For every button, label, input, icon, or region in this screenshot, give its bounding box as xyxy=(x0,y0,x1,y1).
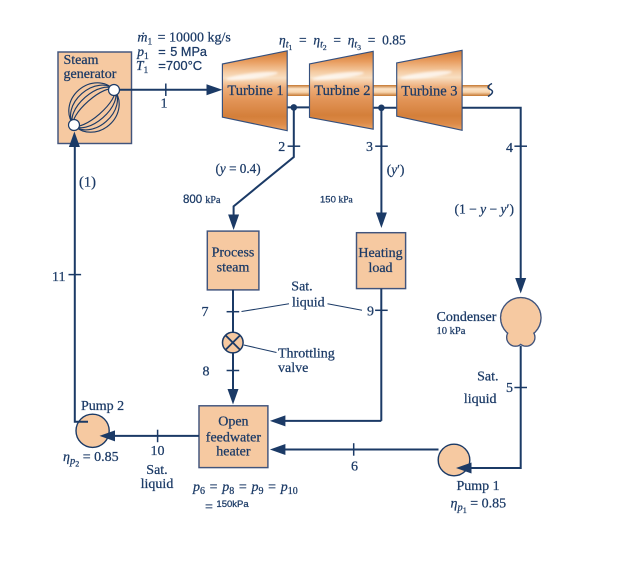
node 6 xyxy=(351,443,358,474)
svg-text:800 kPa: 800 kPa xyxy=(183,194,221,206)
svg-text:valve: valve xyxy=(278,361,308,376)
wire: T2 exhaust to T3 inlet xyxy=(373,107,397,109)
wire: T3 exhaust to condenser xyxy=(462,108,521,280)
svg-text:5: 5 xyxy=(506,381,513,396)
label sat liquid (5) xyxy=(464,370,499,408)
svg-text:steam: steam xyxy=(217,261,250,276)
steam generator xyxy=(58,52,132,144)
svg-text:liquid: liquid xyxy=(292,296,325,311)
node 5 xyxy=(506,381,527,396)
svg-text:ηp1 = 0.85: ηp1 = 0.85 xyxy=(451,497,507,516)
svg-text:6: 6 xyxy=(351,460,358,475)
process steam box xyxy=(207,231,259,290)
svg-text:10 kPa: 10 kPa xyxy=(437,326,466,337)
svg-text:heater: heater xyxy=(216,445,251,460)
svg-text:Sat.: Sat. xyxy=(477,370,498,385)
shaft T2-T3 xyxy=(371,85,399,96)
svg-text:10: 10 xyxy=(151,444,165,459)
svg-text:2: 2 xyxy=(278,140,285,155)
junction: extraction point 2 xyxy=(291,104,298,111)
shaft T1-T2 xyxy=(285,85,312,96)
svg-text:load: load xyxy=(368,261,392,276)
svg-text:(y′): (y′) xyxy=(387,162,405,177)
svg-text:7: 7 xyxy=(202,305,209,320)
svg-text:Condenser: Condenser xyxy=(437,310,497,325)
node 10 xyxy=(151,430,165,459)
wire: steam generator to turbine 1 xyxy=(119,84,222,95)
svg-text:ηt1 = ηt2 = ηt3 = 0.85: ηt1 = ηt2 = ηt3 = 0.85 xyxy=(279,33,406,53)
wire: heating load to feedwater heater xyxy=(283,420,381,422)
svg-text:liquid: liquid xyxy=(141,477,174,492)
svg-text:liquid: liquid xyxy=(464,392,497,407)
junction: extraction point 3 xyxy=(378,105,385,112)
pump P1 xyxy=(438,444,506,515)
wire: feedwater heater to pump 2 xyxy=(113,435,199,437)
svg-text:(y = 0.4): (y = 0.4) xyxy=(216,161,261,176)
svg-text:(1 − y − y′): (1 − y − y′) xyxy=(455,202,514,217)
open feedwater heater xyxy=(199,406,268,468)
label: m1 p1 T1 values xyxy=(136,31,231,77)
svg-text:generator: generator xyxy=(64,67,117,82)
svg-text:150 kPa: 150 kPa xyxy=(320,195,354,206)
label p6=p8=p9=p10 xyxy=(192,480,298,515)
turbine T1 xyxy=(222,51,287,131)
coil end circles xyxy=(109,85,120,96)
svg-text:Pump 1: Pump 1 xyxy=(457,479,500,494)
node 4 xyxy=(506,141,527,156)
svg-text:Turbine 3: Turbine 3 xyxy=(401,84,457,100)
svg-text:4: 4 xyxy=(506,141,513,156)
svg-text:Heating: Heating xyxy=(358,246,402,261)
svg-text:11: 11 xyxy=(52,270,65,285)
svg-text:Sat.: Sat. xyxy=(146,463,167,478)
condenser xyxy=(501,298,541,347)
svg-text:Pump 2: Pump 2 xyxy=(81,399,124,414)
svg-text:Turbine 2: Turbine 2 xyxy=(314,83,370,99)
svg-text:Steam: Steam xyxy=(64,53,99,68)
node 1 xyxy=(161,84,168,112)
throttling valve xyxy=(223,332,244,353)
node 11 xyxy=(52,270,81,285)
wire: heating load down xyxy=(380,289,382,421)
svg-text:feedwater: feedwater xyxy=(206,430,262,445)
svg-text:Process: Process xyxy=(212,246,255,261)
wire: extraction 2 to process steam xyxy=(234,107,294,216)
wire: extraction 3 to heating load xyxy=(380,108,382,216)
pump P2 xyxy=(63,399,124,469)
wire: T1 exhaust to T2 inlet xyxy=(287,106,309,108)
wire: condenser to pump 1 xyxy=(470,346,521,468)
svg-text:= 150kPa: = 150kPa xyxy=(205,499,249,515)
svg-text:3: 3 xyxy=(366,140,373,155)
svg-text:p6 = p8 = p9 = p10: p6 = p8 = p9 = p10 xyxy=(192,480,298,497)
svg-text:Throttling: Throttling xyxy=(278,347,335,362)
svg-text:ηp2 = 0.85: ηp2 = 0.85 xyxy=(63,450,119,469)
node 2 xyxy=(278,140,300,155)
shaft tail after T3 xyxy=(460,84,493,97)
node 9 xyxy=(367,305,388,320)
label Sat. liquid (7-9) with leaders xyxy=(242,280,363,312)
node 3 xyxy=(366,140,388,155)
steam generator coil xyxy=(59,73,130,143)
heating load box xyxy=(357,233,406,289)
wire: pump 1 to feedwater heater xyxy=(283,449,439,451)
turbine T3 xyxy=(397,50,462,130)
wire: process steam down through valve xyxy=(232,290,234,332)
wire: pump 2 to steam generator xyxy=(75,146,88,422)
turbine T2 xyxy=(310,51,374,129)
node 8 xyxy=(203,365,240,380)
svg-text:(1): (1) xyxy=(79,175,96,191)
svg-text:Open: Open xyxy=(218,414,248,429)
svg-text:9: 9 xyxy=(367,305,374,320)
svg-text:Sat.: Sat. xyxy=(291,280,312,295)
svg-text:Turbine 1: Turbine 1 xyxy=(227,83,283,99)
label condenser xyxy=(437,310,497,337)
node 7 xyxy=(202,305,240,320)
svg-text:8: 8 xyxy=(203,365,210,380)
wire: valve to feedwater heater xyxy=(232,353,234,392)
label throttling valve with leader xyxy=(244,345,335,376)
label sat liquid (10) xyxy=(141,463,174,492)
svg-text:1: 1 xyxy=(161,97,168,112)
